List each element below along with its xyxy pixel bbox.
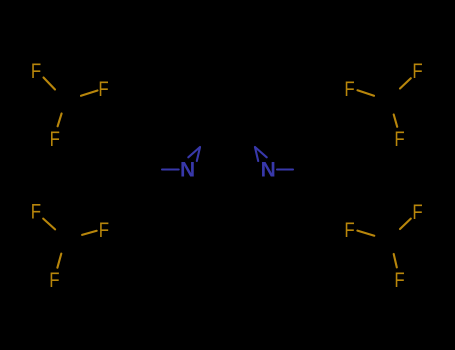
wire: C=N2 double bond inner line xyxy=(255,147,258,161)
svg-text:F: F xyxy=(50,126,60,151)
wire: C-F4 bond (top-right CF3) xyxy=(400,78,411,88)
wire: C-F5 bond (top-right CF3) xyxy=(358,90,375,96)
wire: C=N1 double bond inner line xyxy=(197,147,200,161)
wire: C-F10 bond (bottom-right CF3) xyxy=(400,219,411,229)
wire: C=N2 double bond outer line xyxy=(255,147,267,157)
svg-text:F: F xyxy=(98,76,108,101)
wire: C-F12 bond (bottom-right CF3) xyxy=(394,254,397,267)
wire: C-F3 bond (top-left CF3) xyxy=(58,114,62,127)
wire: N2-aryl single bond (right) xyxy=(277,168,293,170)
wire: C=N1 double bond outer line xyxy=(188,147,200,157)
svg-text:N: N xyxy=(261,158,276,181)
wire: C-F2 bond (top-left CF3) xyxy=(81,91,98,96)
svg-text:F: F xyxy=(49,267,59,292)
wire: C-F11 bond (bottom-right CF3) xyxy=(357,231,374,236)
svg-text:F: F xyxy=(99,217,109,242)
svg-text:F: F xyxy=(394,126,404,151)
svg-text:F: F xyxy=(394,267,404,292)
svg-text:F: F xyxy=(31,58,41,83)
svg-text:F: F xyxy=(344,217,354,242)
wire: N1-aryl single bond (left) xyxy=(162,168,179,170)
wire: C-F9 bond (bottom-left CF3) xyxy=(57,254,61,268)
wire: C-F7 bond (bottom-left CF3) xyxy=(43,219,55,230)
wire: C-F1 bond (top-left CF3) xyxy=(44,78,56,90)
svg-text:F: F xyxy=(344,76,354,101)
wire: C-F6 bond (top-right CF3) xyxy=(394,115,398,127)
svg-text:F: F xyxy=(412,199,422,224)
svg-text:F: F xyxy=(412,58,422,83)
wire: C-F8 bond (bottom-left CF3) xyxy=(82,231,97,235)
svg-text:N: N xyxy=(180,158,195,181)
svg-text:F: F xyxy=(31,198,41,223)
